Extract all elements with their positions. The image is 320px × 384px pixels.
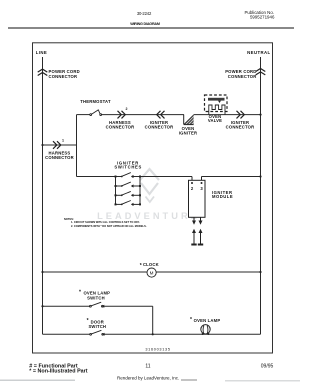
svg-text:5995271946: 5995271946 [250, 14, 275, 19]
svg-text:M: M [150, 271, 154, 276]
svg-text:THERMOSTAT: THERMOSTAT [80, 99, 111, 104]
svg-text:CONNECTOR: CONNECTOR [49, 74, 78, 79]
svg-text:*: * [79, 290, 81, 296]
svg-text:2. COMPONENTS WITH * DO NOT AP: 2. COMPONENTS WITH * DO NOT APPEAR ON AL… [71, 224, 147, 228]
svg-text:CONNECTOR: CONNECTOR [145, 125, 174, 130]
svg-text:1. CIRCUIT SHOWN WITH ALL CONT: 1. CIRCUIT SHOWN WITH ALL CONTROLS SET T… [71, 220, 140, 224]
svg-text:LEADVENTURE: LEADVENTURE [97, 211, 200, 221]
svg-text:LINE: LINE [36, 50, 47, 55]
svg-text:09/95: 09/95 [261, 364, 274, 370]
svg-text:*: * [190, 317, 192, 323]
svg-text:SWITCH: SWITCH [88, 324, 106, 329]
svg-text:CONNECTOR: CONNECTOR [226, 125, 255, 130]
svg-text:Rendered by LeadVenture, Inc.: Rendered by LeadVenture, Inc. [117, 376, 179, 381]
svg-text:SWITCH: SWITCH [87, 296, 105, 301]
svg-text:* = Non-Illustrated Part: * = Non-Illustrated Part [29, 368, 87, 374]
svg-text:CONNECTOR: CONNECTOR [106, 125, 135, 130]
svg-text:1: 1 [62, 139, 64, 143]
svg-text:11: 11 [145, 364, 150, 370]
svg-text:2: 2 [126, 107, 128, 111]
svg-text:CONNECTOR: CONNECTOR [228, 74, 257, 79]
svg-text:WIRING DIAGRAM: WIRING DIAGRAM [130, 22, 160, 26]
svg-text:NEUTRAL: NEUTRAL [247, 50, 270, 55]
svg-text:CONNECTOR: CONNECTOR [45, 155, 74, 160]
svg-text:MODULE: MODULE [212, 194, 233, 199]
svg-text:IGNITER: IGNITER [179, 131, 197, 136]
svg-text:*: * [140, 263, 142, 269]
svg-text:316003135: 316003135 [145, 347, 170, 351]
svg-text:VALVE: VALVE [208, 118, 222, 123]
svg-text:CLOCK: CLOCK [143, 262, 159, 267]
svg-text:OVEN LAMP: OVEN LAMP [194, 318, 221, 323]
svg-text:SWITCHES: SWITCHES [114, 164, 142, 169]
svg-text:30-2242: 30-2242 [137, 11, 152, 16]
